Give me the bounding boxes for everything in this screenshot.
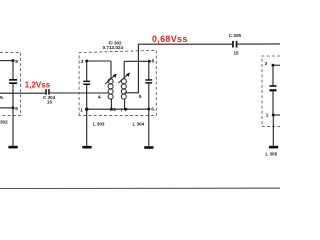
svg-text:1: 1 bbox=[80, 107, 83, 112]
junction pin 8 (Fi302) bbox=[148, 60, 151, 63]
wire tap 9 up and out bbox=[137, 44, 139, 93]
junction pin 1 bbox=[85, 108, 88, 111]
adjustable core arrow L303 bbox=[105, 74, 116, 84]
svg-text:9.: 9. bbox=[0, 95, 4, 100]
svg-text:9: 9 bbox=[139, 94, 142, 99]
coil L304 bottom lead bbox=[124, 99, 126, 109]
page edge line bbox=[0, 187, 280, 189]
coil L304 top lead bbox=[123, 61, 125, 79]
capacitor plates right (Fi302) bbox=[145, 79, 152, 81]
svg-text:4: 4 bbox=[98, 94, 101, 99]
wire output line to C305 bbox=[138, 43, 232, 45]
svg-text:2: 2 bbox=[113, 107, 116, 112]
svg-text:L 305: L 305 bbox=[266, 151, 278, 156]
wire pin3 top bbox=[86, 60, 112, 62]
adjustable core arrow L304 bbox=[118, 73, 129, 83]
svg-text:C 305: C 305 bbox=[229, 33, 242, 38]
capacitor bottom lead right (Fi302) bbox=[148, 84, 150, 109]
svg-text:8: 8 bbox=[15, 59, 18, 64]
capacitor plates (L305) bbox=[270, 85, 277, 87]
svg-text:6: 6 bbox=[15, 106, 18, 111]
coil L304 turns bbox=[121, 79, 126, 99]
capacitor C304 bbox=[45, 89, 47, 95]
capacitor plates (L302) bbox=[9, 79, 17, 81]
filter Fi302 dashed box bbox=[79, 50, 156, 115]
capacitor C305 bbox=[232, 41, 234, 48]
capacitor bottom lead left (Fi302) bbox=[86, 85, 88, 109]
svg-text:3: 3 bbox=[265, 61, 268, 66]
junction pin 1 (L305) bbox=[272, 114, 275, 117]
wire pin 6 to ground bbox=[148, 109, 150, 146]
coil L303 turns bbox=[108, 79, 113, 99]
ground (pin1 Fi302) bbox=[82, 146, 91, 149]
wire pin 1 to ground (L305) bbox=[272, 115, 274, 146]
junction pin 6 (Fi302) bbox=[147, 108, 150, 111]
wire pin 1 (L305) bbox=[273, 114, 280, 116]
junction pin 8 of L302 bbox=[12, 59, 15, 62]
junction pin 2 bbox=[110, 108, 113, 111]
wire C305 to right edge bbox=[237, 43, 280, 45]
svg-text:302: 302 bbox=[0, 120, 8, 125]
wire from pin 6 to ground bbox=[12, 108, 14, 146]
junction pin 6 of L302 bbox=[12, 106, 15, 109]
svg-text:1: 1 bbox=[266, 112, 269, 117]
capacitor inside L302 (top lead) bbox=[12, 61, 14, 80]
wire pin 8 of L302 bbox=[0, 60, 13, 62]
coil L302 dashed box bbox=[0, 52, 21, 115]
svg-text:3: 3 bbox=[81, 59, 84, 64]
capacitor left of Fi302 (top lead) bbox=[86, 61, 88, 81]
ground (L302) bbox=[8, 146, 17, 149]
junction pin 3 (L305) bbox=[272, 64, 275, 67]
ground (L305) bbox=[269, 146, 278, 149]
junction pin 7 bbox=[124, 108, 127, 111]
capacitor plates left (Fi302) bbox=[83, 81, 90, 83]
bottom wire of Fi302 bbox=[87, 108, 149, 110]
wire main line left segment bbox=[0, 92, 45, 94]
svg-text:1,2Vss: 1,2Vss bbox=[25, 81, 51, 90]
svg-text:6.: 6. bbox=[151, 107, 155, 112]
coil L303 top lead bbox=[110, 61, 112, 79]
coil L305 dashed box bbox=[262, 56, 280, 127]
capacitor right of Fi302 (top lead) bbox=[148, 61, 150, 79]
svg-text:L 303: L 303 bbox=[93, 122, 105, 127]
ground (pin6 Fi302) bbox=[144, 146, 153, 149]
wire C304 to Fi302 tap 4 bbox=[50, 92, 108, 94]
svg-text:7: 7 bbox=[120, 107, 123, 112]
capacitor bottom lead (L305) bbox=[272, 91, 274, 115]
tap wire pin 9 (Fi302) bbox=[125, 92, 139, 94]
svg-text:0.713.024: 0.713.024 bbox=[103, 45, 124, 50]
svg-text:L 304: L 304 bbox=[133, 122, 145, 127]
wire pin 3 (L305) bbox=[273, 64, 280, 66]
wire coil L304 top to pin 8 bbox=[124, 60, 149, 62]
svg-text:8: 8 bbox=[152, 59, 155, 64]
capacitor bottom lead (L302) bbox=[12, 84, 14, 108]
svg-text:0,68Vss: 0,68Vss bbox=[152, 34, 188, 44]
junction pin 3 bbox=[85, 60, 88, 63]
capacitor inside L305 (top lead) bbox=[272, 65, 274, 85]
wire pin 1 to ground bbox=[86, 109, 88, 146]
coil L303 bottom lead bbox=[110, 99, 112, 109]
svg-text:15: 15 bbox=[47, 99, 53, 104]
wire pin 6 of L302 bbox=[0, 107, 13, 109]
svg-text:15: 15 bbox=[234, 51, 240, 56]
